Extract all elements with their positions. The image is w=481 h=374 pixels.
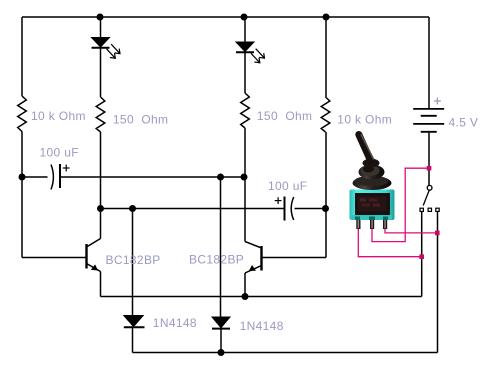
diode D3 cathode bar — [212, 328, 230, 330]
svg-text:100 uF: 100 uF — [268, 179, 307, 193]
LED D1 cathode bar — [92, 47, 110, 49]
wire Q2 emitter down — [244, 273, 246, 297]
resistor R3 10 k Ohm — [321, 97, 330, 132]
capacitor C1 wire left segment — [22, 176, 48, 178]
wire D3 to bottom rail — [220, 330, 222, 353]
toggle switch photo — [350, 135, 395, 230]
wire D3 branch vertical — [220, 177, 222, 317]
wire Q2 base lead — [262, 257, 327, 259]
node junction D3 / bottom rail — [218, 349, 225, 356]
resistor R2 150 Ohm — [96, 97, 105, 132]
diode D4 cathode bar — [124, 326, 145, 328]
svg-text:4.5 V: 4.5 V — [449, 115, 479, 129]
wire Q1 base lead — [22, 257, 87, 259]
resistor R1 10 k Ohm — [18, 96, 27, 132]
LED D1 emission arrow 2 — [107, 49, 116, 59]
wire D4 branch vertical — [132, 209, 134, 317]
toggle switch lever — [359, 135, 371, 162]
battery BT1 plate long — [413, 123, 444, 125]
svg-text:10 k Ohm: 10 k Ohm — [337, 113, 392, 127]
svg-text:150 Ohm: 150 Ohm — [113, 113, 168, 127]
resistor R4 150 Ohm — [241, 93, 250, 128]
wire left rail mid — [21, 132, 23, 258]
svg-text:BC182BP: BC182BP — [106, 253, 161, 267]
wire LED1 anode — [100, 17, 102, 38]
wire LED1 cathode to R2 — [100, 49, 102, 98]
node junction top rail / LED1 — [97, 14, 104, 21]
capacitor C1 straight plate — [59, 164, 61, 188]
node junction left rail / C1 — [19, 174, 26, 181]
wire Q1 emitter down — [100, 272, 102, 297]
LED D1 emission arrow 1 — [111, 44, 120, 54]
LED D1 triangle — [92, 38, 110, 48]
diode D3 1N4148 triangle — [212, 317, 230, 328]
LED D2 emission arrow 2 — [251, 53, 260, 63]
capacitor C2 straight plate — [284, 197, 286, 221]
capacitor C1 plus sign — [63, 165, 70, 172]
pink junction square left terminal — [419, 254, 424, 259]
LED D2 emission arrow 1 — [256, 49, 265, 59]
node junction right rail / C2 wire — [322, 205, 329, 212]
pink wire toggle right pin to switch right terminal — [385, 229, 437, 233]
capacitor C1 curved plate — [51, 165, 53, 190]
switch S1 terminal square right — [436, 208, 439, 211]
switch S1 terminal square left — [420, 208, 423, 211]
wire right rail upper — [325, 17, 327, 97]
pink junction square at battery wire — [427, 166, 432, 171]
toggle switch body — [350, 190, 395, 221]
battery BT1 plate short — [421, 115, 437, 117]
node junction C1 wire / LED2 line — [241, 174, 248, 181]
svg-text:150 Ohm: 150 Ohm — [257, 109, 313, 123]
toggle switch bushing dome — [359, 165, 385, 180]
wire left rail upper — [21, 17, 23, 96]
toggle switch bottom notch strip — [352, 215, 392, 220]
pink wire toggle left pin to switch left terminal — [358, 229, 421, 257]
svg-text:1N4148: 1N4148 — [153, 316, 197, 330]
wire switch left terminal down to emitter rail — [421, 212, 423, 297]
transistor Q2 collector lead — [245, 242, 262, 249]
wire right rail mid — [325, 132, 327, 258]
node junction x100 / C2 wire — [97, 205, 104, 212]
toggle switch body panel — [355, 193, 390, 216]
transistor Q1 base bar — [85, 244, 87, 269]
wire D4 to bottom rail — [132, 328, 134, 353]
node junction C2 wire / D4 branch — [129, 205, 136, 212]
toggle switch pin 3 — [383, 220, 387, 229]
battery BT1 plus sign — [434, 98, 441, 105]
node junction top rail / LED2 — [241, 14, 248, 21]
transistor Q2 emitter arrow — [249, 265, 256, 271]
capacitor C2 plus sign — [275, 197, 282, 204]
capacitor C2 wire left segment — [101, 208, 284, 210]
battery BT1 plate short bottom — [421, 131, 437, 133]
transistor Q2 base bar — [260, 246, 262, 271]
transistor Q1 emitter lead — [87, 264, 101, 272]
switch S1 lever — [423, 190, 429, 205]
toggle switch pin 2 — [370, 220, 374, 229]
capacitor C2 wire right segment — [295, 208, 327, 210]
capacitor C1 wire right segment — [61, 176, 244, 178]
toggle switch flange — [353, 176, 392, 190]
LED D2 triangle — [236, 42, 254, 52]
svg-text:10 k Ohm: 10 k Ohm — [31, 109, 86, 123]
toggle switch pin 1 — [356, 220, 360, 229]
wire R4 to Q2 collector node — [244, 128, 246, 242]
transistor Q1 collector lead — [87, 239, 101, 248]
switch S1 terminal square middle — [428, 208, 431, 211]
wire LED2 anode — [244, 17, 246, 43]
transistor Q1 emitter arrow — [91, 264, 98, 270]
wire R2 to Q1 collector node — [100, 132, 102, 239]
wire top supply rail — [22, 16, 429, 18]
pink junction square right terminal — [435, 231, 440, 236]
wire bottom rail — [133, 352, 438, 354]
wire LED2 cathode to R4 — [244, 53, 246, 93]
capacitor C2 curved plate — [291, 197, 294, 220]
LED D2 cathode bar — [236, 51, 254, 53]
pink wires group — [358, 166, 439, 259]
switch S1 pivot circle — [427, 185, 432, 190]
wire emitter rail — [101, 296, 422, 298]
battery BT1 plate long top — [413, 108, 444, 110]
svg-text:100 uF: 100 uF — [40, 146, 79, 160]
svg-text:BC182BP: BC182BP — [189, 253, 244, 267]
wire battery bottom lead — [428, 133, 430, 186]
node junction C1 wire / D3 branch — [217, 174, 224, 181]
toggle switch collar — [363, 159, 380, 168]
pink wire toggle middle pin to battery net — [372, 168, 429, 241]
node junction top rail / R3 — [323, 14, 330, 21]
wire switch right terminal down to bottom rail — [437, 212, 439, 353]
svg-text:1N4148: 1N4148 — [240, 319, 284, 333]
transistor Q2 emitter lead — [245, 266, 262, 274]
diode D4 1N4148 triangle — [124, 316, 143, 327]
wire battery top lead — [428, 17, 430, 108]
node junction Q2 emitter / emitter rail — [242, 293, 249, 300]
